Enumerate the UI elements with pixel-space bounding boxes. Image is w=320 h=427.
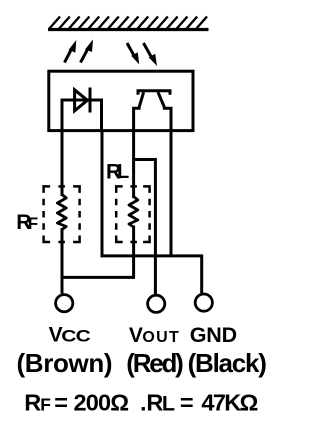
svg-text:V: V [129, 324, 143, 347]
wire: VCC riser lower (RF to VCC terminal) [61, 228, 64, 294]
svg-text:=: = [54, 390, 68, 416]
resistor RF zigzag [57, 195, 66, 230]
phototransistor Q1 base bar [138, 91, 170, 95]
wire: collector / RL branch upper [132, 131, 135, 198]
value label RL = 47K ohm [140, 390, 258, 416]
svg-text:(Brown): (Brown) [17, 348, 113, 378]
terminal VCC [56, 295, 73, 312]
wire: LED cathode drop [101, 131, 104, 257]
svg-text:200Ω: 200Ω [74, 390, 130, 416]
wire: VOUT jog [134, 160, 156, 295]
svg-text:(Black): (Black) [188, 348, 267, 378]
svg-text:(Red): (Red) [126, 348, 184, 378]
phototransistor Q1 emitter leg [158, 92, 171, 131]
wire: ground bus horizontal [101, 254, 203, 257]
terminal GND [195, 294, 212, 311]
svg-text:47KΩ: 47KΩ [201, 390, 258, 416]
svg-text:OUT: OUT [142, 329, 179, 346]
wire: RL to VCC bus lower [132, 226, 135, 279]
reflective surface baseline [48, 28, 209, 31]
LED D1 triangle [75, 90, 88, 111]
LED anode bracket wire [62, 100, 102, 131]
svg-text:GND: GND [190, 323, 237, 347]
label RL [106, 160, 129, 183]
svg-text:=: = [180, 390, 194, 416]
wire: ground drop to GND terminal [200, 255, 203, 293]
svg-text:F: F [28, 214, 38, 233]
svg-text:R: R [146, 390, 163, 416]
label VCC [49, 324, 92, 347]
svg-text:L: L [162, 392, 175, 416]
reflected light arrow 2 [144, 43, 158, 66]
svg-text:C: C [61, 327, 77, 345]
svg-text:L: L [117, 161, 129, 183]
reflected light arrow 1 (down-right pair) [127, 43, 139, 64]
resistor RL zigzag [129, 197, 138, 228]
svg-text:C: C [76, 327, 92, 345]
label RF [16, 211, 38, 234]
svg-text:F: F [40, 395, 51, 415]
reflective surface hatching [49, 17, 207, 30]
phototransistor Q1 collector leg [134, 92, 144, 131]
value label RF = 200 ohm [24, 390, 129, 416]
LED D1 cathode bar [89, 88, 92, 113]
wire: VCC bus horizontal [62, 276, 135, 279]
emitted light arrow 2 [81, 39, 94, 62]
resistor RL dashed box [116, 186, 149, 242]
resistor RF dashed box [44, 186, 80, 242]
terminal VOUT [148, 295, 165, 312]
label VOUT [129, 324, 179, 347]
wire: VCC riser upper (LED anode to RF) [61, 131, 64, 196]
emitted light arrow 1 (up-left pair) [65, 40, 77, 63]
wire: emitter drop [170, 131, 173, 257]
photo-reflector package outline [49, 71, 193, 130]
svg-text:R: R [24, 390, 41, 416]
